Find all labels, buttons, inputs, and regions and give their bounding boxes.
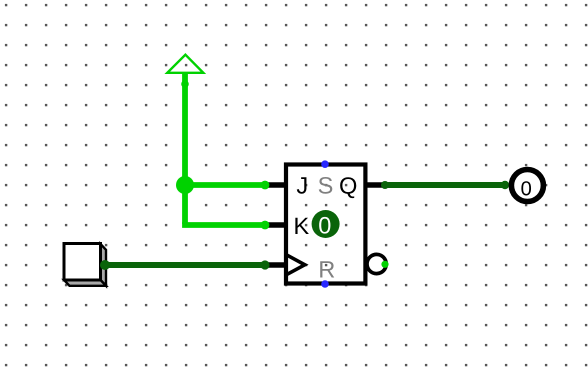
flip-flop U1 port stub CLK	[265, 262, 288, 267]
wire: corner to K input (logic 1)	[185, 222, 265, 228]
pin label K	[295, 218, 309, 234]
node: power port dot	[181, 80, 189, 88]
flip-flop U1 port stub K	[265, 222, 288, 227]
pin label Q	[340, 177, 356, 198]
flip-flop U1 port stub J	[265, 182, 288, 187]
pin label R	[320, 261, 334, 277]
pin label S	[319, 177, 333, 194]
flip-flop U1 state indicator (value 0)	[312, 210, 340, 238]
flip-flop U1 clock wedge	[286, 255, 305, 275]
node: K input endpoint	[261, 221, 270, 230]
wire: button to CLK input (logic 0)	[105, 262, 265, 268]
node: S async input port (floating)	[321, 160, 329, 168]
node: CLK input endpoint	[260, 260, 269, 269]
wire: Q output to pin (logic 0)	[385, 182, 505, 188]
output pin P1	[511, 170, 543, 202]
node: J input endpoint	[261, 181, 270, 190]
button B1 side face (right)	[101, 244, 107, 286]
junction node at J branch	[176, 176, 194, 194]
wire: junction to J input (logic 1)	[185, 182, 265, 188]
node: Q output endpoint	[381, 181, 389, 189]
flip-flop U1 port stub Q	[364, 182, 385, 187]
output pin P1 value 0	[521, 181, 531, 195]
wire: power to K row (vertical, logic 1)	[182, 74, 188, 224]
flip-flop U1 inverted-output bubble	[367, 254, 386, 273]
node: inverted Q port (logic 1)	[381, 261, 388, 268]
power supply V1 (logic-high source triangle)	[167, 55, 203, 73]
pin label J	[297, 177, 307, 193]
node: pin input endpoint	[501, 181, 509, 189]
flip-flop U1 body	[286, 165, 365, 284]
button B1 side face (bottom)	[64, 280, 106, 286]
node: R async input port (floating)	[321, 280, 329, 288]
button B1 front face	[64, 244, 101, 281]
node: button output endpoint	[100, 260, 110, 270]
